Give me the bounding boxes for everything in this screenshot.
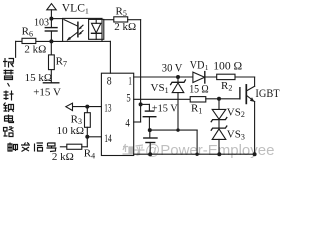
svg-text:1: 1 [205,63,209,72]
svg-text:10 kΩ: 10 kΩ [57,125,84,137]
svg-text:VLC1: VLC1 [62,2,89,16]
svg-text:2 kΩ: 2 kΩ [52,151,74,163]
svg-text:2 kΩ: 2 kΩ [114,21,136,33]
svg-text:103: 103 [34,18,49,29]
svg-text:IGBT: IGBT [255,86,280,100]
svg-text:15 Ω: 15 Ω [189,83,209,95]
svg-text:30 V: 30 V [162,61,183,75]
svg-text:+15 V: +15 V [152,104,178,115]
svg-text:5: 5 [126,92,131,104]
svg-text:VD: VD [190,57,205,71]
svg-text:13: 13 [104,102,111,114]
svg-text:15 kΩ: 15 kΩ [25,72,52,84]
svg-text:+15 V: +15 V [33,86,61,98]
svg-text:4: 4 [125,118,130,130]
svg-text:2 kΩ: 2 kΩ [24,44,46,56]
svg-text:1: 1 [128,73,132,87]
svg-text:100 Ω: 100 Ω [213,59,242,73]
svg-text:14: 14 [104,133,112,145]
svg-text:8: 8 [107,73,112,87]
